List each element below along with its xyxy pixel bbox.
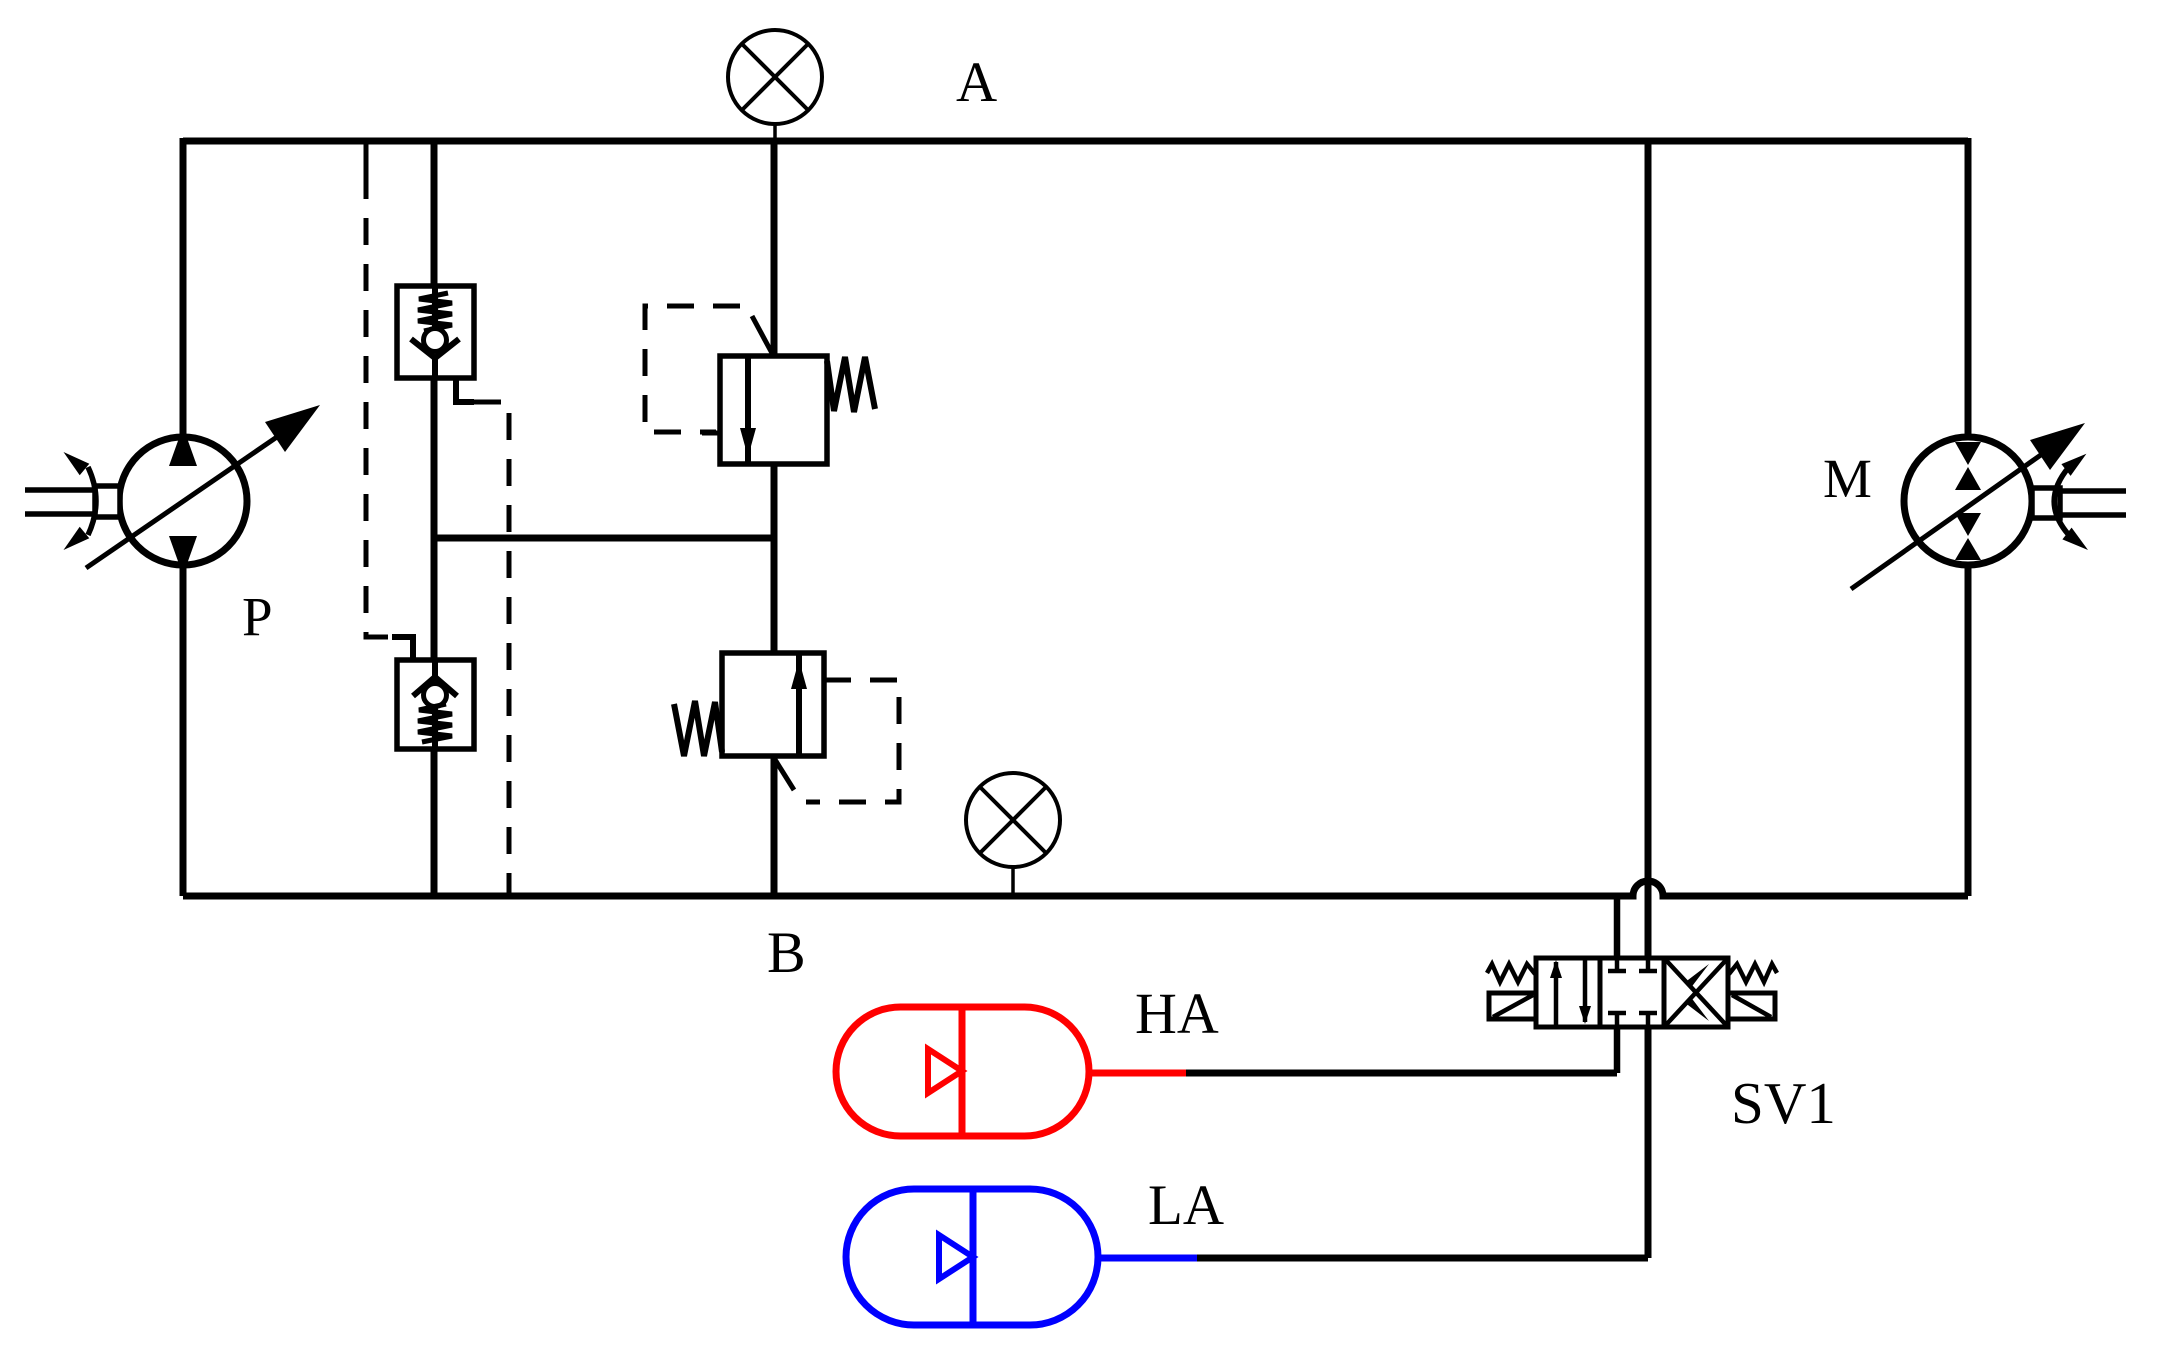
svg-text:HA: HA [1135,981,1219,1046]
svg-text:B: B [767,920,806,985]
svg-text:LA: LA [1148,1174,1224,1237]
svg-text:P: P [242,586,273,647]
svg-text:SV1: SV1 [1731,1070,1836,1136]
svg-text:A: A [956,51,997,114]
svg-text:M: M [1823,448,1872,509]
